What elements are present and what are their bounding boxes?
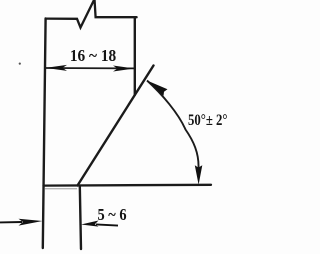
angle arc upper arrowhead xyxy=(147,81,168,96)
angle arc lower arrowhead xyxy=(195,165,203,185)
bottom plate surface horizontal line xyxy=(44,184,212,187)
upper plate right edge line xyxy=(134,17,136,95)
svg-text:16 ~ 18: 16 ~ 18 xyxy=(70,46,116,65)
svg-text:50°± 2°: 50°± 2° xyxy=(188,112,227,129)
angle dimension arc xyxy=(147,81,199,169)
dimension 5~6 arrowhead pointing left xyxy=(81,221,99,227)
bevel groove diagonal line xyxy=(78,66,154,186)
upper plate left edge line xyxy=(43,18,46,248)
root face right vertical line xyxy=(80,186,81,249)
leader arrow tail (weld side arrow) xyxy=(0,221,22,223)
faint shadow under surface line xyxy=(45,188,77,190)
dimension 16~18 left arrowhead xyxy=(46,65,68,71)
dimension 16~18 right arrowhead xyxy=(113,66,134,72)
stray speck dot xyxy=(19,63,21,65)
upper plate top edge with break symbol xyxy=(46,0,137,28)
dimension 5~6 right arrow tail xyxy=(96,224,118,225)
dimension 16~18 line xyxy=(46,67,135,69)
leader arrowhead xyxy=(19,219,43,226)
weld groove diagram xyxy=(0,0,227,254)
svg-text:5 ~ 6: 5 ~ 6 xyxy=(97,206,126,224)
